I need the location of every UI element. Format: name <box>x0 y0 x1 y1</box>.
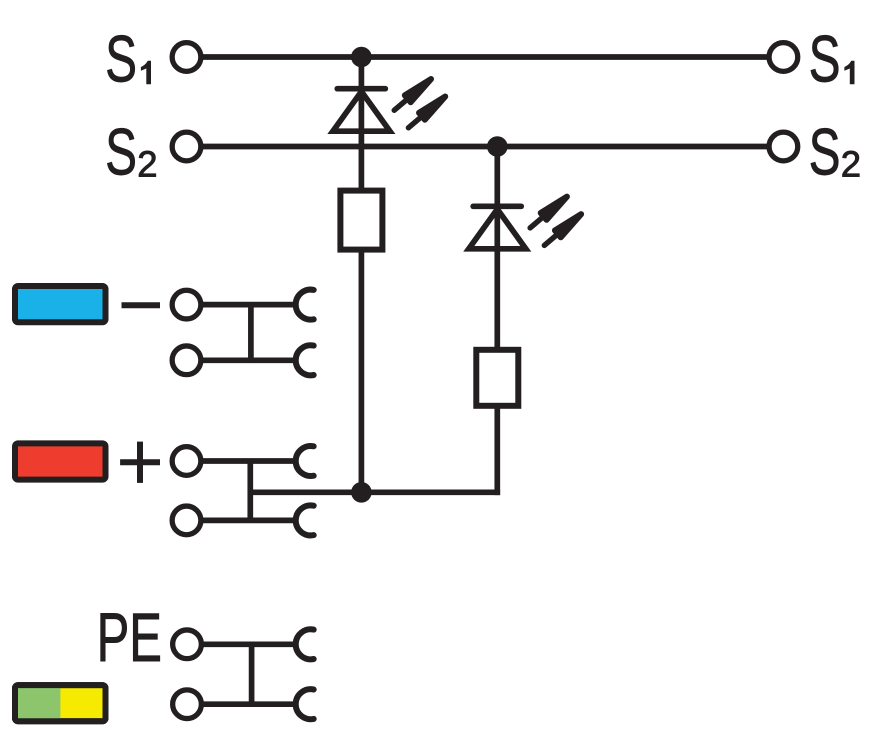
LED D2 light arrow a <box>527 193 570 231</box>
wire PE row top <box>203 641 294 647</box>
terminal circle S1 right <box>769 43 798 72</box>
terminal circle minus bottom <box>172 346 201 375</box>
wire PE row bottom <box>203 701 294 707</box>
LED D2 cathode bar <box>473 203 521 209</box>
marker box green/yellow (PE) <box>15 685 106 721</box>
wire plus fork vertical <box>247 461 253 520</box>
label S1 left, letter S <box>105 23 137 96</box>
label S1 right, letter S <box>809 23 841 96</box>
terminal circle plus bottom <box>172 506 201 535</box>
node junction dot on S1 <box>351 47 372 68</box>
wire vertical branch 1 <box>359 57 365 492</box>
wire middle horizontal to + rail <box>250 489 500 495</box>
svg-text:2: 2 <box>137 143 157 184</box>
clamp contact plus bottom <box>296 505 314 535</box>
wire minus fork vertical <box>248 305 254 361</box>
label S1 right, subscript 1 <box>844 61 854 84</box>
clamp contact plus top <box>296 446 314 476</box>
resistor R2 <box>476 350 518 406</box>
LED D1 triangle <box>333 92 390 132</box>
label PE <box>97 599 162 676</box>
terminal circle S1 left <box>172 43 201 72</box>
LED D1 light arrow a <box>391 76 434 114</box>
LED D1 light arrow b <box>405 93 448 131</box>
label S2 right, subscript 2 <box>841 143 861 184</box>
wire S2 bus <box>187 144 784 150</box>
label S2 right, letter S <box>809 116 841 189</box>
clamp contact minus top <box>296 290 314 320</box>
clamp contact PE bottom <box>296 689 314 719</box>
svg-text:S: S <box>809 116 841 189</box>
LED D2 triangle <box>469 209 526 249</box>
wire minus row top <box>203 302 294 308</box>
LED D2 light arrow b <box>541 211 584 249</box>
wire minus row bottom <box>203 357 294 363</box>
svg-text:S: S <box>105 23 137 96</box>
clamp contact PE top <box>296 629 314 659</box>
node junction dot on S2 <box>487 136 508 157</box>
terminal circle PE top <box>173 630 202 659</box>
label S2 left, letter S <box>105 116 137 189</box>
clamp contact minus bottom <box>296 345 314 375</box>
plus sign horizontal <box>120 459 160 465</box>
svg-text:S: S <box>809 23 841 96</box>
terminal circle S2 right <box>769 132 798 161</box>
plus sign vertical <box>137 442 143 483</box>
marker box blue (minus rail) <box>15 286 106 322</box>
LED D1 cathode bar <box>337 86 385 92</box>
terminal circle minus top <box>172 290 201 319</box>
svg-text:2: 2 <box>841 143 861 184</box>
wire plus row top <box>203 458 294 464</box>
terminal circle PE bottom <box>173 690 202 719</box>
minus sign <box>122 302 161 308</box>
label S1 left, subscript 1 <box>141 61 151 84</box>
svg-text:PE: PE <box>97 599 162 676</box>
wire PE fork vertical <box>249 644 255 704</box>
wire S1 bus <box>187 54 784 60</box>
svg-text:S: S <box>105 116 137 189</box>
marker box red (plus rail) <box>15 443 106 479</box>
resistor R1 <box>340 191 382 250</box>
wire vertical branch 2 <box>494 147 500 496</box>
terminal circle plus top <box>172 447 201 476</box>
terminal circle S2 left <box>172 132 201 161</box>
node junction dot on + rail <box>351 482 372 503</box>
wire plus row bottom <box>203 518 294 524</box>
label S2 left, subscript 2 <box>137 143 157 184</box>
